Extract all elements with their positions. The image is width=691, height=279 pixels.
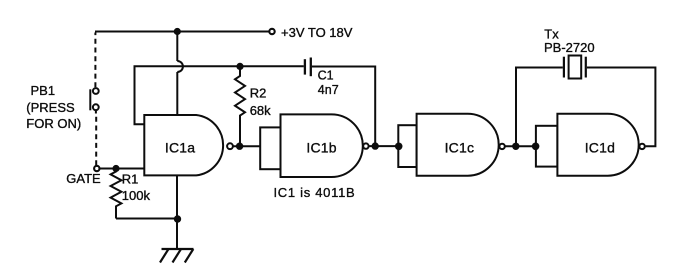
ground [160,249,194,263]
wire supply drop to IC1a top pin [176,32,178,62]
svg-text:68k: 68k [250,103,271,118]
wire IC1a output to IC1b input [233,145,260,147]
node IC1c input junction [395,143,403,151]
node IC1d input junction [532,143,540,151]
wire IC1c output to IC1d input [505,145,536,147]
transducer Tx PB-2720 [564,56,586,79]
svg-text:4n7: 4n7 [318,83,339,97]
terminal +3V open circle [269,29,274,34]
svg-text:PB-2720: PB-2720 [544,40,595,55]
PB1 bottom contact [93,104,99,110]
svg-text:IC1d: IC1d [585,140,615,156]
PB1 top contact [93,88,99,94]
nand gate IC1c input block [398,125,416,167]
wire C1 right to IC1b output node [312,67,375,147]
svg-text:PB1: PB1 [31,83,56,98]
svg-text:Tx: Tx [544,26,559,41]
PB1 actuator bar [89,89,91,110]
node R2 bottom junction [236,143,243,150]
node ground junction [174,215,181,222]
nand gate IC1a [144,115,233,175]
wire dashed lead above PB1 [94,33,96,88]
resistor R2 [235,66,245,146]
svg-text:C1: C1 [318,69,334,83]
node R2 top junction [236,63,243,70]
wire crossover hop [177,61,183,72]
wire R1 bottom to ground node [116,218,178,220]
node supply junction [174,28,181,35]
wire IC1b output to IC1c input [369,145,398,147]
wire Tx right branch to IC1d output [587,68,656,147]
svg-text:100k: 100k [122,188,151,203]
wire Tx left branch [516,68,563,147]
node GATE/R1 junction [112,165,119,172]
wire IC1a ground pin [176,176,178,250]
nand gate IC1d input block [536,126,558,167]
svg-text:IC1 is 4011B: IC1 is 4011B [274,185,356,200]
node C1 feedback junction [372,142,379,149]
nand gate IC1b input block [260,127,280,169]
wire dashed lead below PB1 [95,110,97,113]
nand gate IC1c [417,114,505,176]
node Tx tap junction [512,143,519,150]
wire top supply rail [95,31,269,33]
svg-text:IC1a: IC1a [165,140,195,156]
wire feedback net: IC1a input up-and-over to R2/C1 [135,66,304,124]
capacitor C1 [305,58,311,77]
nand gate IC1d [557,114,644,176]
svg-text:IC1b: IC1b [306,140,336,156]
svg-text:GATE: GATE [66,171,101,186]
svg-text:IC1c: IC1c [445,140,475,156]
svg-text:(PRESS: (PRESS [26,100,75,115]
svg-text:+3V TO 18V: +3V TO 18V [281,25,353,40]
svg-text:R1: R1 [122,172,139,187]
svg-text:R2: R2 [250,86,267,101]
pushbutton PB1 [90,33,98,166]
wire GATE to IC1a lower input [100,168,145,170]
svg-text:FOR ON): FOR ON) [26,116,81,131]
nand gate IC1b [281,114,369,177]
terminal GATE open circle [94,166,99,171]
resistor R1 [111,169,122,219]
